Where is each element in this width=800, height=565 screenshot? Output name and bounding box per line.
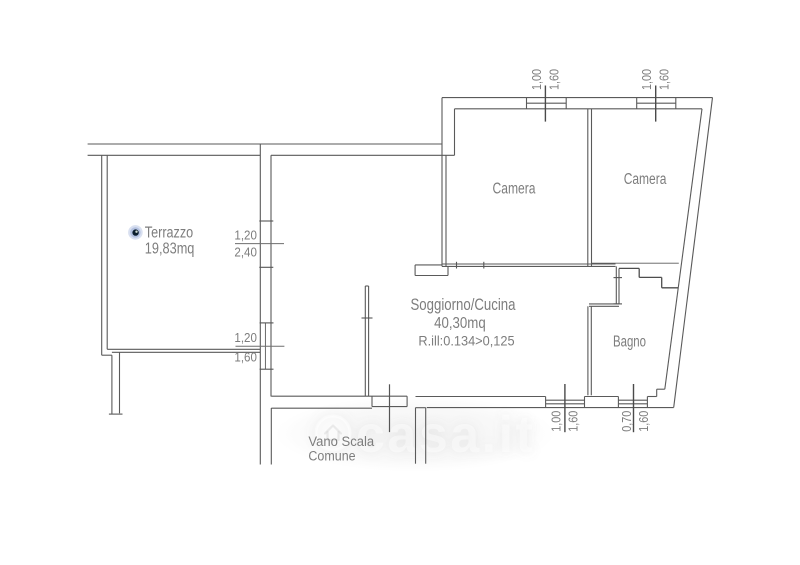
svg-text:1,00: 1,00 [549,411,564,432]
svg-text:Vano Scala: Vano Scala [308,434,374,449]
svg-text:Camera: Camera [493,181,536,198]
svg-text:1,60: 1,60 [547,69,562,90]
svg-text:1,60: 1,60 [656,69,671,90]
svg-text:Terrazzo: Terrazzo [145,224,193,241]
svg-text:1,00: 1,00 [529,69,544,90]
svg-text:1,60: 1,60 [566,411,581,432]
svg-text:Camera: Camera [624,171,667,188]
svg-text:casa.it: casa.it [356,406,535,464]
svg-text:1,00: 1,00 [639,69,654,90]
svg-text:40,30mq: 40,30mq [434,315,486,332]
svg-text:Bagno: Bagno [613,333,646,350]
svg-text:1,20: 1,20 [234,228,257,243]
svg-text:Soggiorno/Cucina: Soggiorno/Cucina [411,295,516,314]
svg-text:R.ill:0.134>0,125: R.ill:0.134>0,125 [418,334,514,349]
svg-text:19,83mq: 19,83mq [145,241,195,258]
svg-text:1,60: 1,60 [234,349,257,364]
svg-text:Comune: Comune [308,449,355,464]
svg-text:0,70: 0,70 [619,411,634,432]
svg-text:2,40: 2,40 [234,245,257,260]
svg-text:1,60: 1,60 [636,411,651,432]
svg-text:1,20: 1,20 [234,330,257,345]
